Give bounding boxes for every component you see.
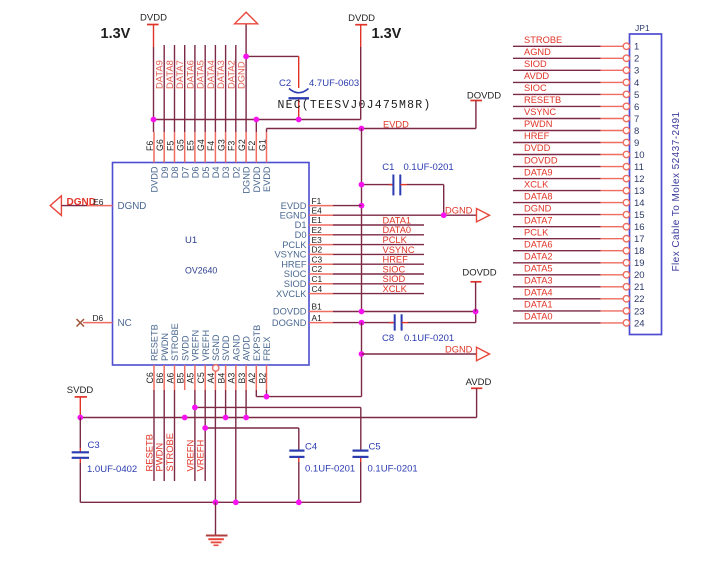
svg-text:DGND: DGND bbox=[445, 344, 473, 354]
svg-text:DATA2: DATA2 bbox=[524, 252, 553, 262]
svg-text:XCLK: XCLK bbox=[383, 284, 408, 294]
svg-text:G1: G1 bbox=[257, 139, 267, 151]
svg-text:21: 21 bbox=[634, 282, 645, 293]
svg-text:15: 15 bbox=[634, 210, 645, 221]
svg-text:B3: B3 bbox=[237, 373, 247, 384]
svg-text:DGND: DGND bbox=[242, 166, 252, 193]
svg-text:PWDN: PWDN bbox=[160, 333, 170, 361]
svg-text:B1: B1 bbox=[312, 302, 323, 312]
svg-text:A2: A2 bbox=[247, 373, 257, 384]
svg-text:DVDD: DVDD bbox=[524, 143, 551, 153]
svg-text:EVDD: EVDD bbox=[281, 201, 307, 211]
svg-text:G6: G6 bbox=[155, 139, 165, 151]
svg-text:PCLK: PCLK bbox=[524, 227, 549, 237]
svg-text:G2: G2 bbox=[237, 139, 247, 151]
svg-text:VREFH: VREFH bbox=[195, 440, 206, 472]
svg-text:AVDD: AVDD bbox=[524, 71, 549, 81]
svg-text:A1: A1 bbox=[312, 313, 323, 323]
svg-text:B4: B4 bbox=[216, 373, 226, 384]
svg-text:23: 23 bbox=[634, 306, 645, 317]
svg-text:AGND: AGND bbox=[524, 47, 551, 57]
svg-text:XVCLK: XVCLK bbox=[276, 289, 307, 299]
svg-text:JP1: JP1 bbox=[635, 23, 650, 33]
svg-text:DATA0: DATA0 bbox=[524, 312, 553, 322]
svg-text:1: 1 bbox=[634, 42, 639, 53]
svg-text:VSYNC: VSYNC bbox=[383, 245, 415, 255]
svg-text:B2: B2 bbox=[257, 373, 267, 384]
svg-text:3: 3 bbox=[634, 66, 639, 77]
svg-text:DOVDD: DOVDD bbox=[524, 155, 558, 165]
svg-text:C4: C4 bbox=[305, 442, 317, 453]
svg-text:7: 7 bbox=[634, 114, 639, 125]
svg-text:SIOC: SIOC bbox=[284, 269, 307, 279]
svg-text:D3: D3 bbox=[221, 167, 231, 179]
svg-text:HREF: HREF bbox=[383, 255, 409, 265]
svg-text:RESETB: RESETB bbox=[150, 324, 160, 361]
svg-text:0.1UF-0201: 0.1UF-0201 bbox=[404, 162, 454, 173]
svg-text:C1: C1 bbox=[312, 274, 323, 284]
svg-text:C5: C5 bbox=[369, 442, 381, 453]
svg-text:RESETB: RESETB bbox=[524, 95, 561, 105]
svg-text:Flex Cable To Molex 52437-2491: Flex Cable To Molex 52437-2491 bbox=[671, 111, 682, 271]
svg-text:DATA1: DATA1 bbox=[524, 300, 553, 310]
svg-text:OV2640: OV2640 bbox=[185, 266, 217, 276]
svg-text:DVDD: DVDD bbox=[150, 166, 160, 192]
svg-text:22: 22 bbox=[634, 294, 645, 305]
svg-text:DATA3: DATA3 bbox=[524, 276, 553, 286]
svg-text:AVDD: AVDD bbox=[242, 336, 252, 361]
svg-text:DVDD: DVDD bbox=[252, 166, 262, 192]
svg-text:SIOD: SIOD bbox=[383, 274, 406, 284]
svg-text:DOVDD: DOVDD bbox=[462, 268, 496, 279]
svg-text:F3: F3 bbox=[227, 141, 237, 151]
svg-text:11: 11 bbox=[634, 162, 644, 173]
svg-text:G5: G5 bbox=[176, 139, 186, 151]
svg-text:HREF: HREF bbox=[281, 259, 307, 269]
svg-text:U1: U1 bbox=[185, 235, 197, 246]
svg-text:SGND: SGND bbox=[211, 334, 221, 361]
svg-text:13: 13 bbox=[634, 186, 645, 197]
svg-text:DATA7: DATA7 bbox=[524, 215, 553, 225]
svg-text:D1: D1 bbox=[295, 220, 307, 230]
svg-text:SVDD: SVDD bbox=[67, 385, 94, 396]
svg-text:DGND: DGND bbox=[445, 206, 473, 216]
svg-text:NC: NC bbox=[118, 318, 132, 329]
svg-text:DATA6: DATA6 bbox=[524, 239, 553, 249]
svg-text:DGND: DGND bbox=[524, 203, 552, 213]
svg-text:C5: C5 bbox=[196, 372, 206, 383]
svg-text:E6: E6 bbox=[93, 197, 104, 207]
svg-text:D4: D4 bbox=[211, 167, 221, 179]
svg-text:0.1UF-0201: 0.1UF-0201 bbox=[305, 464, 355, 475]
svg-text:PCLK: PCLK bbox=[282, 240, 307, 250]
svg-text:EXPSTB: EXPSTB bbox=[252, 325, 262, 361]
svg-text:DATA8: DATA8 bbox=[524, 191, 553, 201]
svg-text:SIOC: SIOC bbox=[524, 83, 547, 93]
svg-text:C2: C2 bbox=[312, 264, 323, 274]
svg-text:19: 19 bbox=[634, 258, 645, 269]
svg-text:C3: C3 bbox=[312, 254, 323, 264]
svg-text:DGND: DGND bbox=[118, 201, 147, 212]
svg-text:PCLK: PCLK bbox=[383, 235, 408, 245]
svg-text:DOGND: DOGND bbox=[272, 318, 307, 328]
svg-text:F4: F4 bbox=[206, 141, 216, 151]
svg-text:2: 2 bbox=[634, 54, 639, 65]
svg-text:DATA0: DATA0 bbox=[383, 225, 412, 235]
svg-text:D0: D0 bbox=[295, 230, 307, 240]
svg-text:EVDD: EVDD bbox=[383, 119, 409, 129]
svg-text:16: 16 bbox=[634, 222, 645, 233]
svg-text:D6: D6 bbox=[191, 167, 201, 179]
svg-text:A6: A6 bbox=[165, 373, 175, 384]
svg-text:D2: D2 bbox=[231, 167, 241, 179]
svg-text:1.3V: 1.3V bbox=[372, 26, 402, 42]
svg-text:SIOD: SIOD bbox=[284, 279, 307, 289]
svg-text:STROBE: STROBE bbox=[164, 433, 175, 472]
svg-text:E2: E2 bbox=[312, 225, 323, 235]
svg-text:F2: F2 bbox=[247, 141, 257, 151]
svg-text:17: 17 bbox=[634, 234, 645, 245]
svg-text:SIOD: SIOD bbox=[524, 59, 547, 69]
svg-text:10: 10 bbox=[634, 150, 645, 161]
svg-text:PWDN: PWDN bbox=[524, 119, 552, 129]
svg-text:E5: E5 bbox=[186, 140, 196, 151]
svg-text:C6: C6 bbox=[145, 372, 155, 383]
svg-text:B5: B5 bbox=[176, 373, 186, 384]
svg-text:8: 8 bbox=[634, 126, 639, 137]
svg-text:XCLK: XCLK bbox=[524, 179, 549, 189]
svg-text:DATA4: DATA4 bbox=[524, 288, 553, 298]
svg-text:A3: A3 bbox=[227, 373, 237, 384]
svg-text:VREFN: VREFN bbox=[191, 330, 201, 361]
svg-text:24: 24 bbox=[634, 318, 645, 329]
svg-text:VSYNC: VSYNC bbox=[524, 107, 556, 117]
svg-text:D2: D2 bbox=[312, 245, 323, 255]
svg-text:DVDD: DVDD bbox=[348, 13, 375, 24]
svg-text:F6: F6 bbox=[145, 141, 155, 151]
svg-text:DATA1: DATA1 bbox=[383, 215, 412, 225]
svg-text:4.7UF-0603: 4.7UF-0603 bbox=[309, 78, 359, 89]
svg-text:E1: E1 bbox=[312, 215, 323, 225]
svg-text:G3: G3 bbox=[216, 139, 226, 151]
svg-text:E3: E3 bbox=[312, 235, 323, 245]
svg-text:18: 18 bbox=[634, 246, 645, 257]
svg-text:C2: C2 bbox=[279, 78, 291, 89]
svg-text:C8: C8 bbox=[382, 333, 394, 344]
svg-text:DGND: DGND bbox=[236, 61, 247, 89]
svg-text:FREX: FREX bbox=[262, 336, 272, 361]
svg-text:DGND: DGND bbox=[67, 197, 96, 208]
svg-text:DATA9: DATA9 bbox=[524, 167, 553, 177]
svg-text:B6: B6 bbox=[155, 373, 165, 384]
svg-text:5: 5 bbox=[634, 90, 639, 101]
svg-text:12: 12 bbox=[634, 174, 645, 185]
svg-text:DVDD: DVDD bbox=[140, 13, 167, 24]
svg-text:AVDD: AVDD bbox=[466, 377, 492, 388]
svg-text:A4: A4 bbox=[206, 373, 216, 384]
svg-text:C4: C4 bbox=[312, 284, 323, 294]
svg-text:1.0UF-0402: 1.0UF-0402 bbox=[87, 464, 137, 475]
svg-text:D7: D7 bbox=[180, 167, 190, 179]
svg-text:D6: D6 bbox=[93, 313, 104, 323]
svg-text:DOVDD: DOVDD bbox=[273, 307, 307, 317]
svg-text:A5: A5 bbox=[186, 373, 196, 384]
svg-text:VSYNC: VSYNC bbox=[274, 250, 306, 260]
svg-text:DATA5: DATA5 bbox=[524, 264, 553, 274]
svg-text:D8: D8 bbox=[170, 167, 180, 179]
svg-text:SIOC: SIOC bbox=[383, 264, 406, 274]
svg-text:EVDD: EVDD bbox=[262, 166, 272, 192]
svg-text:1.3V: 1.3V bbox=[101, 26, 131, 42]
svg-text:SVDD: SVDD bbox=[180, 335, 190, 361]
svg-text:0.1UF-0201: 0.1UF-0201 bbox=[404, 333, 454, 344]
svg-text:D9: D9 bbox=[160, 167, 170, 179]
svg-text:VREFH: VREFH bbox=[201, 330, 211, 361]
svg-text:G4: G4 bbox=[196, 139, 206, 151]
svg-text:E4: E4 bbox=[312, 205, 323, 215]
svg-text:SVDD: SVDD bbox=[221, 335, 231, 361]
svg-text:F1: F1 bbox=[312, 196, 322, 206]
svg-text:20: 20 bbox=[634, 270, 645, 281]
svg-text:STROBE: STROBE bbox=[170, 323, 180, 361]
svg-text:C3: C3 bbox=[88, 440, 100, 451]
svg-text:EGND: EGND bbox=[280, 210, 307, 220]
svg-text:4: 4 bbox=[634, 78, 639, 89]
svg-text:HREF: HREF bbox=[524, 131, 550, 141]
svg-text:C1: C1 bbox=[382, 162, 394, 173]
svg-text:NEC(TEESVJ0J475M8R): NEC(TEESVJ0J475M8R) bbox=[278, 99, 432, 112]
svg-text:F5: F5 bbox=[165, 141, 175, 151]
svg-text:9: 9 bbox=[634, 138, 639, 149]
svg-text:AGND: AGND bbox=[231, 334, 241, 361]
svg-text:D5: D5 bbox=[201, 167, 211, 179]
svg-text:0.1UF-0201: 0.1UF-0201 bbox=[368, 464, 418, 475]
svg-text:6: 6 bbox=[634, 102, 639, 113]
svg-text:STROBE: STROBE bbox=[524, 35, 562, 45]
svg-text:14: 14 bbox=[634, 198, 645, 209]
